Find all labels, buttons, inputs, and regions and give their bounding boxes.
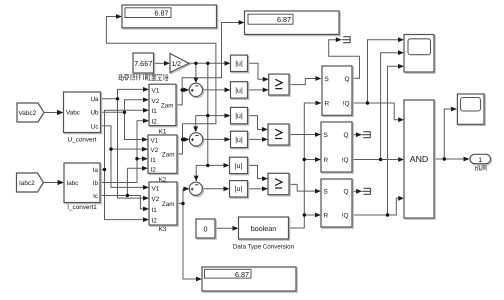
svg-text:Ic: Ic xyxy=(93,193,98,200)
svg-text:I2: I2 xyxy=(152,218,158,225)
svg-text:I1: I1 xyxy=(151,157,157,164)
svg-text:Q: Q xyxy=(345,76,350,83)
svg-text:S: S xyxy=(324,189,328,196)
svg-text:V2: V2 xyxy=(152,98,160,105)
svg-text:Vabc2: Vabc2 xyxy=(19,110,37,117)
svg-text:|u|: |u| xyxy=(235,60,243,68)
svg-text:0: 0 xyxy=(204,224,208,233)
svg-text:Uc: Uc xyxy=(91,123,99,130)
svg-text:Iabc2: Iabc2 xyxy=(19,180,35,187)
svg-text:R: R xyxy=(325,101,330,108)
svg-text:K3: K3 xyxy=(159,226,167,233)
svg-text:U_convert: U_convert xyxy=(68,137,97,144)
svg-text:S: S xyxy=(324,132,328,139)
svg-text:I2: I2 xyxy=(151,166,157,173)
svg-text:R: R xyxy=(324,157,329,164)
svg-text:Zam: Zam xyxy=(162,201,175,208)
svg-text:K1: K1 xyxy=(159,128,167,135)
svg-text:Q: Q xyxy=(344,189,349,196)
svg-text:1/2: 1/2 xyxy=(172,61,182,68)
svg-text:V2: V2 xyxy=(151,147,159,154)
svg-text:!Q: !Q xyxy=(343,101,350,108)
svg-text:I2: I2 xyxy=(152,119,158,126)
svg-text:6.87: 6.87 xyxy=(155,9,169,18)
svg-text:AND: AND xyxy=(410,154,429,164)
svg-text:Zam: Zam xyxy=(162,151,175,158)
svg-text:!Q: !Q xyxy=(342,157,349,164)
svg-text:|u|: |u| xyxy=(235,86,243,94)
svg-text:|u|: |u| xyxy=(235,136,243,144)
svg-text:Vabc: Vabc xyxy=(66,110,80,117)
svg-text:boolean: boolean xyxy=(251,224,277,233)
svg-text:|u|: |u| xyxy=(235,162,243,170)
svg-text:S: S xyxy=(325,76,329,83)
svg-text:R: R xyxy=(324,213,329,220)
svg-text:V1: V1 xyxy=(152,87,160,94)
svg-text:1: 1 xyxy=(478,157,482,164)
svg-text:Iabc: Iabc xyxy=(67,180,79,187)
svg-text:Ib: Ib xyxy=(93,180,99,187)
svg-text:I_convert1: I_convert1 xyxy=(67,204,97,211)
svg-text:Ua: Ua xyxy=(90,96,99,103)
svg-text:Ia: Ia xyxy=(93,167,99,174)
svg-text:6.87: 6.87 xyxy=(277,15,291,24)
svg-text:I1: I1 xyxy=(152,207,158,214)
svg-text:V1: V1 xyxy=(151,138,159,145)
svg-text:|u|: |u| xyxy=(235,185,243,193)
svg-text:Ub: Ub xyxy=(90,110,99,117)
svg-text:V1: V1 xyxy=(152,186,160,193)
svg-text:V2: V2 xyxy=(152,196,160,203)
svg-text:|u|: |u| xyxy=(235,112,243,120)
svg-text:Data Type Conversion: Data Type Conversion xyxy=(233,244,295,251)
svg-text:6.87: 6.87 xyxy=(235,270,249,279)
svg-text:Q: Q xyxy=(344,132,349,139)
svg-text:Zam: Zam xyxy=(161,102,174,109)
svg-text:7.667: 7.667 xyxy=(134,59,152,68)
svg-text:!Q: !Q xyxy=(342,213,349,220)
svg-text:I1: I1 xyxy=(152,108,158,115)
